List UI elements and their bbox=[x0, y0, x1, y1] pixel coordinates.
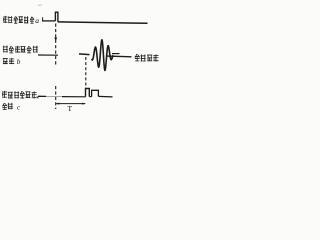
dimension line for interval T bbox=[56, 103, 85, 105]
svg-text:a: a bbox=[35, 16, 39, 25]
waveform b: baseline dash before burst bbox=[79, 53, 90, 56]
comma after label line 1 bbox=[37, 96, 39, 98]
waveform a: transmit pulse bbox=[55, 12, 58, 22]
waveform a: baseline left bbox=[42, 20, 55, 22]
svg-text:b: b bbox=[17, 58, 21, 66]
waveform c: baseline right bbox=[98, 95, 112, 98]
dimension arrowhead left bbox=[56, 103, 59, 105]
waveform c: baseline left (dark) bbox=[38, 95, 46, 97]
waveform b: short upper dash bbox=[112, 53, 120, 55]
label: transmit pulse signal a (CJK, stylised) bbox=[3, 16, 28, 23]
label: signal (line 2, CJK stylised) bbox=[2, 103, 12, 110]
waveform c: baseline between pulses bbox=[89, 96, 91, 98]
arrow marker on dashed line bbox=[54, 38, 57, 42]
waveform c: detected pulse 1 bbox=[86, 89, 90, 97]
waveform c: baseline to first pulse bbox=[62, 96, 86, 98]
label: received echo (line 1, CJK stylised) bbox=[3, 46, 38, 53]
label: echo signal (right, CJK stylised) bbox=[135, 54, 159, 62]
scan speckle mark top bbox=[38, 4, 42, 6]
waveform c: baseline faint middle bbox=[46, 95, 62, 97]
waveform c: detected pulse 2 bbox=[92, 90, 99, 96]
dashed time-reference line at x=55.7, lower part bbox=[55, 86, 57, 109]
label: amplified/detected signal (line 1, CJK stylised) bbox=[2, 91, 37, 99]
dimension arrowhead right bbox=[82, 103, 85, 105]
waveform b: echo burst bbox=[92, 40, 114, 70]
waveform b: baseline left segment bbox=[38, 54, 58, 56]
dashed time-reference line at x=55.7, upper part bbox=[55, 24, 57, 67]
dashed echo-arrival line at x=85.8 bbox=[85, 57, 87, 88]
waveform b: baseline right segment bbox=[107, 55, 132, 58]
svg-text:T: T bbox=[68, 104, 73, 113]
label: signal (line 2, CJK stylised) bbox=[3, 58, 14, 64]
waveform a: baseline right bbox=[58, 22, 148, 23]
tick after label a bbox=[42, 17, 44, 21]
